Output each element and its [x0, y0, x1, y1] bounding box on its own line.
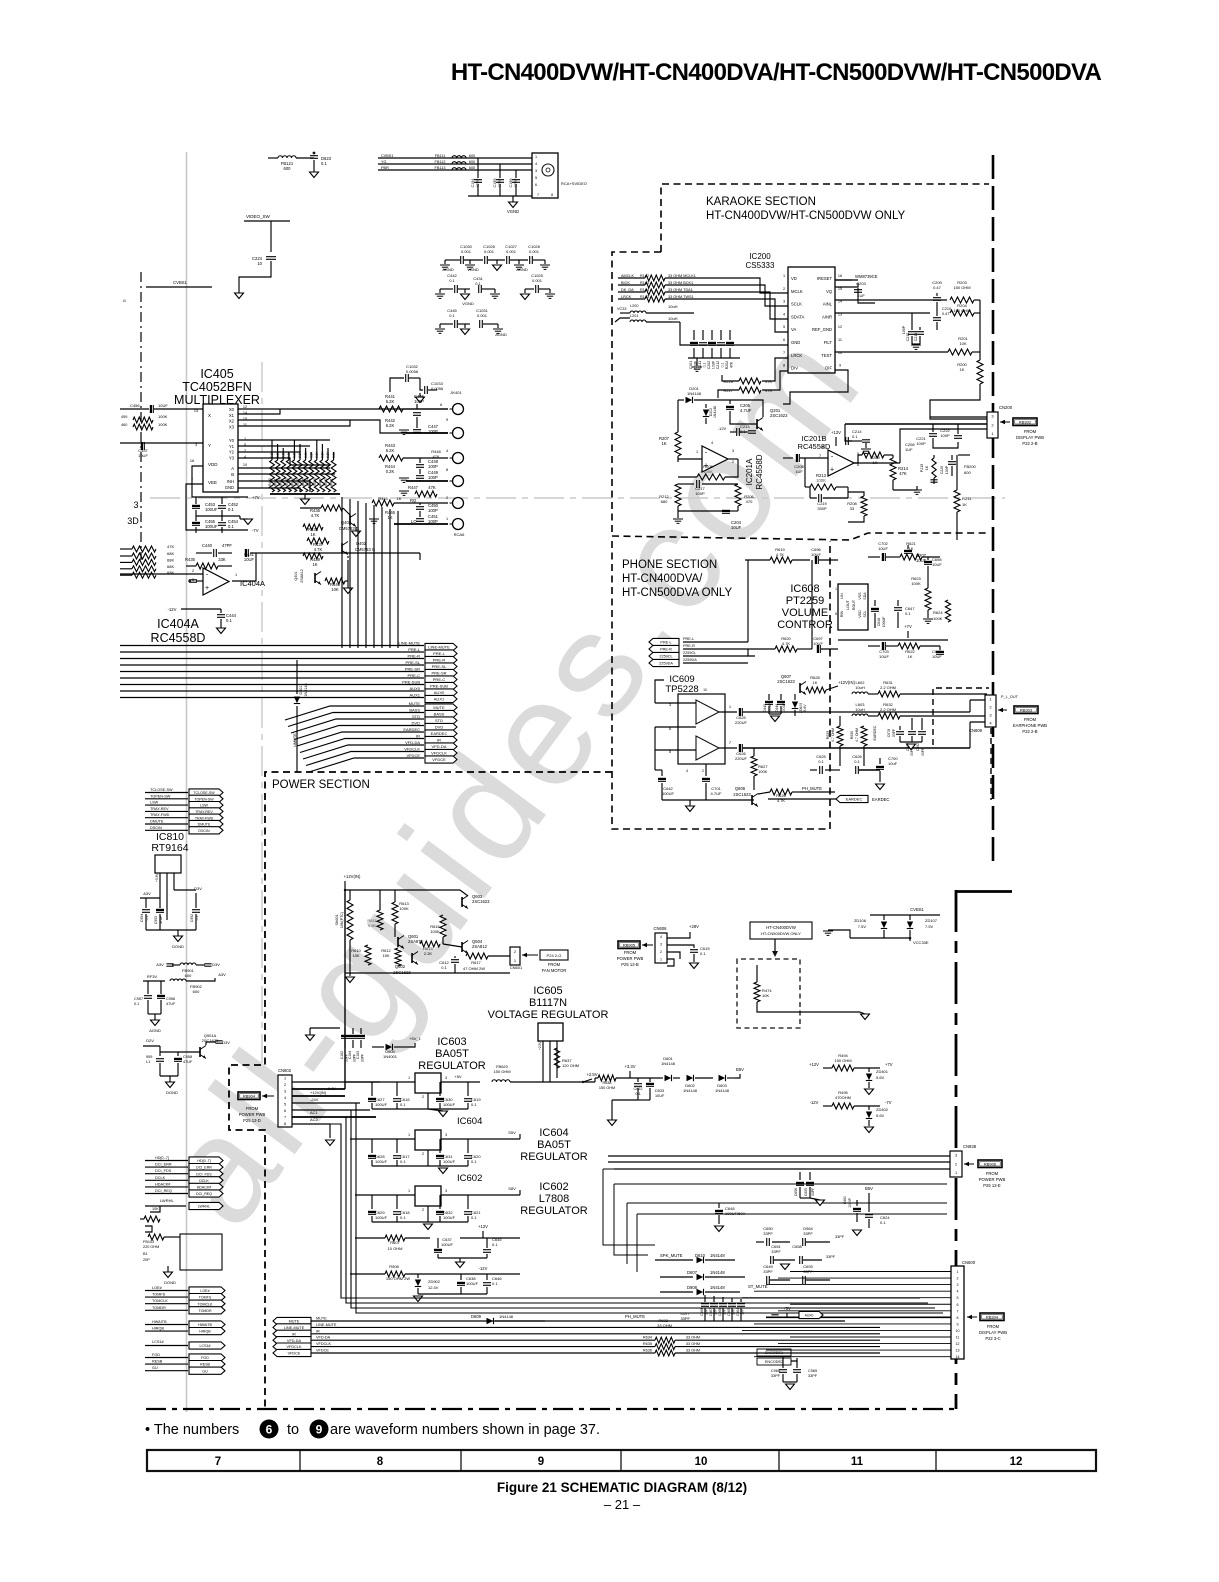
wire gnd rail — [196, 515, 240, 517]
svg-text:6: 6 — [284, 1109, 286, 1113]
svg-text:A3V: A3V — [218, 972, 226, 977]
svg-text:ZD401: ZD401 — [876, 1069, 889, 1074]
svg-text:TRAY-FWD: TRAY-FWD — [195, 816, 214, 820]
svg-text:VCC33E: VCC33E — [913, 940, 929, 945]
capacitor D628 — [371, 1139, 373, 1153]
svg-text:X3: X3 — [229, 424, 235, 429]
svg-text:+12V(IN): +12V(IN) — [344, 874, 361, 879]
svg-text:3: 3 — [445, 1076, 447, 1080]
svg-text:6.2K: 6.2K — [386, 448, 395, 453]
svg-text:0.1: 0.1 — [400, 1215, 406, 1220]
svg-text:C164: C164 — [348, 1051, 352, 1059]
svg-text:FROM: FROM — [1024, 717, 1037, 722]
svg-text:REGULATOR: REGULATOR — [418, 1060, 485, 1072]
svg-text:VFDCE: VFDCE — [288, 1352, 301, 1356]
capacitor D532 — [439, 1195, 441, 1209]
wire cn606 loop — [667, 952, 680, 959]
op-amp IC602 box — [415, 1186, 441, 1206]
resistor R635 — [640, 1346, 655, 1348]
svg-text:2.2 OHM: 2.2 OHM — [880, 707, 896, 712]
capacitor C617 — [396, 1139, 398, 1153]
svg-text:IC405: IC405 — [200, 367, 233, 381]
svg-text:RB904: RB904 — [243, 1094, 256, 1099]
op-amp IC609 B — [696, 736, 719, 760]
svg-text:1K: 1K — [397, 496, 402, 501]
wire Y input — [120, 442, 203, 444]
svg-text:+7V: +7V — [904, 624, 912, 629]
svg-text:6: 6 — [535, 183, 537, 187]
svg-text:0.001: 0.001 — [484, 249, 495, 254]
svg-text:33P: 33P — [741, 1309, 745, 1315]
svg-text:+2.5V: +2.5V — [586, 1072, 597, 1077]
svg-text:4.7K: 4.7K — [782, 641, 791, 646]
capacitor C616 0.1 — [396, 1082, 398, 1096]
svg-text:D609: D609 — [471, 1314, 482, 1319]
right heavy dashed bus border x=956 — [955, 890, 958, 1409]
RB303 callout — [998, 709, 1007, 711]
svg-text:TOMFS: TOMFS — [199, 1296, 212, 1300]
svg-text:INH: INH — [227, 479, 234, 484]
svg-text:R202: R202 — [725, 361, 729, 370]
svg-text:+5V_1: +5V_1 — [409, 1036, 421, 1041]
svg-text:4: 4 — [711, 441, 713, 445]
svg-text:VFDCLK: VFDCLK — [287, 1345, 302, 1349]
ground — [686, 806, 695, 812]
svg-text:RC4558D: RC4558D — [798, 442, 832, 451]
svg-text:C667: C667 — [709, 1308, 713, 1316]
ground — [865, 1127, 874, 1133]
footer zone bar — [147, 1450, 1096, 1471]
svg-text:C194: C194 — [471, 178, 475, 187]
svg-text:0.2K: 0.2K — [386, 469, 395, 474]
svg-text:FROM: FROM — [986, 1171, 999, 1176]
svg-text:SN601: SN601 — [335, 915, 339, 926]
svg-text:0.1: 0.1 — [721, 363, 725, 368]
zener D202 — [705, 404, 707, 408]
svg-text:LIN: LIN — [840, 593, 844, 599]
svg-text:TCLOSE-SW: TCLOSE-SW — [150, 788, 173, 792]
svg-text:POWER PWB: POWER PWB — [239, 1112, 266, 1117]
svg-text:R455: R455 — [296, 478, 300, 486]
svg-text:POWER PWB: POWER PWB — [979, 1177, 1006, 1182]
svg-text:33PF: 33PF — [835, 1235, 845, 1239]
svg-text:2SC1623: 2SC1623 — [777, 679, 795, 684]
svg-text:B1: B1 — [143, 1252, 148, 1256]
svg-text:1N4148: 1N4148 — [710, 1285, 725, 1290]
heavy border jog — [956, 890, 1012, 893]
svg-text:12: 12 — [956, 1342, 960, 1346]
ground — [235, 293, 244, 299]
wire AINL row — [835, 299, 947, 301]
svg-text:0.1: 0.1 — [134, 1002, 139, 1006]
svg-text:MUTE: MUTE — [409, 701, 421, 706]
svg-text:2.2K: 2.2K — [424, 951, 433, 956]
wire +12V(IN) vertical bus — [344, 890, 346, 1089]
svg-text:AUX0: AUX0 — [410, 686, 421, 691]
capacitor C689 C692 33PF — [911, 718, 913, 730]
svg-text:1N4148: 1N4148 — [661, 1061, 676, 1066]
svg-text:-7V: -7V — [252, 528, 259, 533]
svg-text:IC602: IC602 — [539, 1181, 568, 1193]
svg-text:8: 8 — [822, 445, 824, 449]
svg-text:C658: C658 — [792, 1244, 802, 1249]
svg-text:6.8K: 6.8K — [270, 451, 274, 458]
ground — [456, 1262, 465, 1268]
wire squiggle — [145, 1226, 152, 1232]
svg-text:8: 8 — [835, 612, 837, 616]
svg-text:CN938: CN938 — [963, 1144, 977, 1149]
svg-text:0.1: 0.1 — [700, 951, 706, 956]
svg-text:3: 3 — [133, 500, 138, 510]
svg-text:+12V: +12V — [478, 1224, 488, 1229]
svg-text:P25 12-D: P25 12-D — [243, 1118, 261, 1123]
svg-text:X: X — [208, 413, 211, 418]
svg-text:0.1: 0.1 — [400, 1102, 406, 1107]
ground — [344, 588, 353, 594]
svg-text:Q602: Q602 — [395, 964, 406, 969]
svg-text:FROM: FROM — [624, 950, 637, 955]
op-amp IC200 box — [788, 267, 835, 373]
svg-text:0.1: 0.1 — [492, 1242, 498, 1247]
capacitor C618 — [396, 1195, 398, 1209]
svg-text:ZD106: ZD106 — [854, 918, 867, 923]
svg-text:R636: R636 — [643, 1349, 652, 1353]
svg-text:Y0: Y0 — [229, 438, 235, 443]
svg-text:R452: R452 — [279, 478, 283, 486]
ground bar — [544, 260, 546, 264]
capacitor C215 100P — [911, 313, 913, 330]
RB904 callout — [238, 1092, 260, 1100]
svg-text:R908: R908 — [389, 1264, 399, 1269]
op-amp IC404A — [203, 568, 229, 595]
svg-text:2: 2 — [955, 1162, 957, 1166]
svg-text:BICK: BICK — [621, 281, 630, 285]
capacitor C627 100UF — [371, 1082, 373, 1096]
svg-text:FROM: FROM — [987, 1324, 1000, 1329]
svg-text:PRE-R: PRE-R — [683, 644, 695, 648]
svg-text:R630: R630 — [850, 731, 854, 739]
capacitors C162 C164 C163 33PF — [344, 1028, 346, 1034]
svg-text:0.1: 0.1 — [905, 611, 911, 616]
svg-text:7: 7 — [783, 351, 785, 355]
svg-text:1K: 1K — [312, 562, 317, 567]
svg-text:600: 600 — [964, 470, 971, 475]
svg-text:47PF: 47PF — [476, 178, 480, 188]
svg-text:FB103: FB103 — [143, 1240, 154, 1244]
svg-text:EARPHONE PWB: EARPHONE PWB — [1013, 723, 1047, 728]
wire IC602 row — [355, 1194, 415, 1196]
svg-text:RESB: RESB — [200, 1363, 210, 1367]
svg-text:VDD: VDD — [858, 610, 862, 618]
capacitor C625 220UF output A — [719, 711, 737, 713]
svg-text:10UF: 10UF — [158, 403, 168, 408]
svg-text:2259CL: 2259CL — [659, 655, 672, 659]
svg-text:FAN MOTOR: FAN MOTOR — [542, 968, 567, 973]
svg-text:LSW: LSW — [200, 804, 208, 808]
svg-text:D3V: D3V — [212, 962, 220, 967]
capacitor C643 100UF — [768, 694, 770, 700]
svg-text:R617: R617 — [471, 960, 481, 965]
svg-text:16: 16 — [190, 459, 194, 463]
svg-text:R447: R447 — [408, 485, 419, 490]
svg-text:DCI_REQ: DCI_REQ — [155, 1189, 172, 1193]
svg-text:Y2: Y2 — [229, 450, 235, 455]
svg-text:HIRQB: HIRQB — [199, 1330, 211, 1334]
P24 2-G box — [540, 950, 568, 960]
svg-text:R634: R634 — [643, 1336, 652, 1340]
svg-text:100UF: 100UF — [882, 616, 886, 628]
svg-text:VFDCE: VFDCE — [406, 753, 420, 758]
svg-text:100K: 100K — [703, 469, 713, 474]
svg-text:REGULATOR: REGULATOR — [520, 1205, 587, 1217]
ground — [439, 324, 441, 328]
svg-text:VFDCE: VFDCE — [432, 757, 446, 762]
wire — [239, 261, 271, 293]
svg-text:33PF: 33PF — [771, 1374, 781, 1378]
svg-text:TOPEN-SW: TOPEN-SW — [194, 797, 214, 801]
svg-text:DGND: DGND — [164, 1280, 176, 1285]
svg-text:P_L_OUT: P_L_OUT — [1001, 695, 1019, 699]
wire Y1 — [238, 445, 310, 447]
svg-text:R445: R445 — [378, 496, 388, 501]
svg-text:7: 7 — [537, 193, 539, 197]
svg-text:150 OHM: 150 OHM — [834, 1058, 851, 1063]
left page border dash-dot — [140, 272, 142, 560]
svg-text:PRE-L: PRE-L — [683, 637, 694, 641]
svg-text:2: 2 — [783, 287, 785, 291]
svg-text:1N4001: 1N4001 — [383, 1054, 398, 1059]
svg-text:100K: 100K — [158, 414, 168, 419]
RB304 callout — [967, 1316, 977, 1318]
svg-text:47K: 47K — [730, 361, 734, 368]
svg-text:100P: 100P — [428, 429, 438, 434]
svg-text:C162: C162 — [340, 1051, 344, 1059]
net tags phone inputs — [649, 638, 679, 645]
ground AGND — [444, 260, 446, 264]
svg-text:33P: 33P — [714, 1309, 718, 1315]
svg-text:33 OHM: 33 OHM — [686, 1349, 700, 1353]
svg-text:C220: C220 — [940, 466, 944, 475]
svg-text:2: 2 — [422, 1208, 424, 1212]
svg-text:SCL: SCL — [863, 611, 867, 618]
svg-text:16: 16 — [838, 274, 842, 278]
svg-text:D401: D401 — [299, 685, 303, 694]
svg-text:10UF: 10UF — [879, 654, 889, 659]
svg-text:11: 11 — [851, 1456, 864, 1468]
ground AGND — [151, 1020, 160, 1026]
svg-text:0.1: 0.1 — [854, 759, 860, 764]
ground VGND — [509, 202, 518, 208]
bypass capacitors C201 C211 C202 C212 R202 — [693, 330, 695, 340]
svg-text:RB303: RB303 — [1020, 708, 1033, 713]
svg-text:C201: C201 — [689, 361, 693, 370]
svg-text:PRE-SUB: PRE-SUB — [402, 680, 420, 685]
svg-text:2SC1623: 2SC1623 — [770, 413, 788, 418]
svg-text:C660: C660 — [843, 1196, 847, 1204]
svg-text:47UF: 47UF — [166, 1002, 176, 1006]
svg-text:+7V: +7V — [885, 1062, 893, 1067]
svg-text:BASS: BASS — [409, 708, 420, 713]
svg-text:IC608: IC608 — [790, 583, 819, 595]
svg-text:+7V: +7V — [252, 495, 260, 500]
svg-text:6.8K: 6.8K — [287, 451, 291, 458]
svg-text:2: 2 — [732, 460, 734, 464]
svg-text:10UF: 10UF — [932, 562, 942, 567]
svg-text:459: 459 — [121, 415, 127, 419]
svg-text:0.1: 0.1 — [880, 1220, 886, 1225]
ground DGND 2 — [166, 1082, 175, 1088]
svg-text:GU: GU — [202, 1369, 208, 1373]
ground — [853, 1230, 862, 1236]
svg-text:IC605: IC605 — [533, 985, 562, 997]
svg-text:TRAY-REV: TRAY-REV — [195, 810, 213, 814]
svg-text:B: B — [231, 472, 234, 477]
op-amp IC603 box — [415, 1073, 441, 1093]
svg-text:X2: X2 — [229, 419, 235, 424]
wire IC604 row — [350, 1138, 415, 1140]
wire MUTE row — [311, 1320, 545, 1322]
svg-text:RCA6: RCA6 — [454, 532, 465, 537]
svg-text:IC200: IC200 — [749, 252, 771, 261]
svg-text:RC4558D: RC4558D — [755, 454, 764, 489]
svg-text:6.8K: 6.8K — [276, 451, 280, 458]
svg-text:L201: L201 — [630, 314, 638, 318]
svg-text:4: 4 — [446, 449, 448, 453]
svg-text:0.1: 0.1 — [145, 916, 149, 921]
svg-text:LWRHL: LWRHL — [160, 1198, 174, 1203]
svg-text:Y1: Y1 — [229, 444, 235, 449]
svg-text:470OHM: 470OHM — [835, 1095, 851, 1100]
svg-text:IRESET: IRESET — [817, 276, 833, 281]
svg-text:PRE-R: PRE-R — [660, 648, 672, 652]
svg-text:BA05T: BA05T — [537, 1139, 571, 1151]
svg-text:LSW: LSW — [150, 801, 159, 805]
svg-text:+: + — [205, 585, 209, 592]
RB905 callout — [618, 941, 640, 949]
svg-text:100P: 100P — [428, 508, 438, 513]
svg-text:100UF: 100UF — [768, 703, 772, 713]
svg-text:D607: D607 — [687, 1270, 698, 1275]
svg-text:L7808: L7808 — [539, 1193, 570, 1205]
wire feedback — [232, 553, 256, 581]
svg-text:VFDCLK: VFDCLK — [316, 1342, 331, 1346]
svg-text:100P: 100P — [428, 475, 438, 480]
svg-text:9: 9 — [839, 364, 841, 368]
svg-text:1K: 1K — [908, 654, 913, 659]
svg-text:-12V: -12V — [718, 426, 727, 431]
ground — [439, 1111, 448, 1117]
svg-text:47K: 47K — [899, 471, 907, 476]
RB906 callout — [964, 1163, 974, 1165]
svg-text:RB302: RB302 — [1019, 420, 1032, 425]
capacitor C631 — [439, 1139, 441, 1153]
svg-text:3: 3 — [783, 300, 785, 304]
svg-text:33PF: 33PF — [361, 1054, 365, 1062]
svg-text:100K: 100K — [816, 478, 826, 483]
svg-text:3D: 3D — [127, 516, 139, 526]
svg-text:VD: VD — [791, 276, 797, 281]
svg-text:CVBS1: CVBS1 — [381, 154, 393, 158]
svg-text:R453: R453 — [285, 478, 289, 486]
svg-text:33: 33 — [850, 506, 855, 511]
svg-text:LOE#: LOE# — [200, 1289, 209, 1293]
wire top bus — [672, 312, 694, 314]
svg-text:1: 1 — [835, 587, 837, 591]
svg-text:33P: 33P — [705, 1309, 709, 1315]
svg-text:7: 7 — [819, 454, 821, 458]
svg-text:SPK_MUTE: SPK_MUTE — [660, 1253, 683, 1258]
svg-text:6: 6 — [266, 1422, 273, 1436]
svg-text:HDACK#: HDACK# — [197, 1186, 212, 1190]
svg-text:IR: IR — [437, 738, 441, 743]
svg-text:47UF: 47UF — [159, 916, 163, 924]
svg-text:PRE-SL: PRE-SL — [432, 664, 447, 669]
svg-text:DGND: DGND — [172, 944, 184, 949]
svg-text:R450: R450 — [268, 478, 272, 486]
svg-text:8: 8 — [957, 1316, 959, 1320]
svg-text:0.1: 0.1 — [195, 916, 199, 921]
svg-text:P22 2-B: P22 2-B — [1022, 729, 1037, 734]
svg-text:AUX0: AUX0 — [805, 1314, 814, 1318]
wires into CN600 — [790, 1271, 951, 1273]
svg-text:D908: D908 — [687, 1285, 698, 1290]
ENCODE1 ENCODE2 boxes — [757, 1349, 791, 1356]
svg-text:DMUTE: DMUTE — [198, 823, 211, 827]
svg-text:C954: C954 — [140, 914, 144, 922]
svg-text:B1117N: B1117N — [529, 997, 567, 1009]
ground — [301, 499, 310, 505]
svg-text:S8V: S8V — [508, 1186, 516, 1191]
ferrite bead FB121 — [268, 157, 278, 159]
bus group 1 horizontal lines — [120, 645, 424, 647]
resistor R634 — [640, 1339, 655, 1341]
svg-text:KARAOKE SECTION: KARAOKE SECTION — [706, 196, 816, 208]
svg-text:6: 6 — [857, 463, 859, 467]
svg-text:2: 2 — [192, 569, 194, 573]
svg-text:C643: C643 — [763, 704, 767, 712]
ground — [439, 289, 441, 293]
svg-text:8: 8 — [783, 364, 785, 368]
svg-text:1N4148: 1N4148 — [713, 406, 717, 418]
svg-text:YG: YG — [381, 160, 387, 164]
svg-text:D533: D533 — [655, 1089, 664, 1093]
svg-text:6: 6 — [957, 1303, 959, 1307]
svg-text:R458: R458 — [313, 478, 317, 486]
wire IC810 pins — [159, 873, 161, 905]
svg-text:DCLK: DCLK — [155, 1176, 166, 1180]
svg-text:VC33: VC33 — [617, 307, 627, 311]
svg-text:2: 2 — [957, 1277, 959, 1281]
svg-text:R629: R629 — [826, 731, 830, 739]
svg-text:8: 8 — [377, 1456, 384, 1468]
svg-text:47PF: 47PF — [514, 178, 518, 188]
svg-text:10UF: 10UF — [138, 453, 148, 458]
svg-text:100K: 100K — [911, 581, 921, 586]
fold guide horizontal gray line y=498 — [150, 497, 1005, 499]
svg-text:6: 6 — [783, 338, 785, 342]
svg-text:HT-CN400DVW/HT-CN400DVA/HT-CN5: HT-CN400DVW/HT-CN400DVA/HT-CN500DVW/HT-C… — [451, 59, 1102, 86]
svg-text:5: 5 — [535, 176, 537, 180]
wire A B INH GND — [238, 467, 330, 469]
svg-text:C456: C456 — [130, 403, 140, 408]
svg-text:ZD107: ZD107 — [925, 918, 938, 923]
svg-text:2: 2 — [284, 1083, 286, 1087]
svg-text:CVBS1: CVBS1 — [173, 280, 187, 285]
svg-text:1K: 1K — [813, 680, 818, 685]
ground triangle — [496, 260, 498, 264]
svg-text:CN601: CN601 — [510, 965, 523, 970]
svg-text:5.6V: 5.6V — [876, 1075, 885, 1080]
